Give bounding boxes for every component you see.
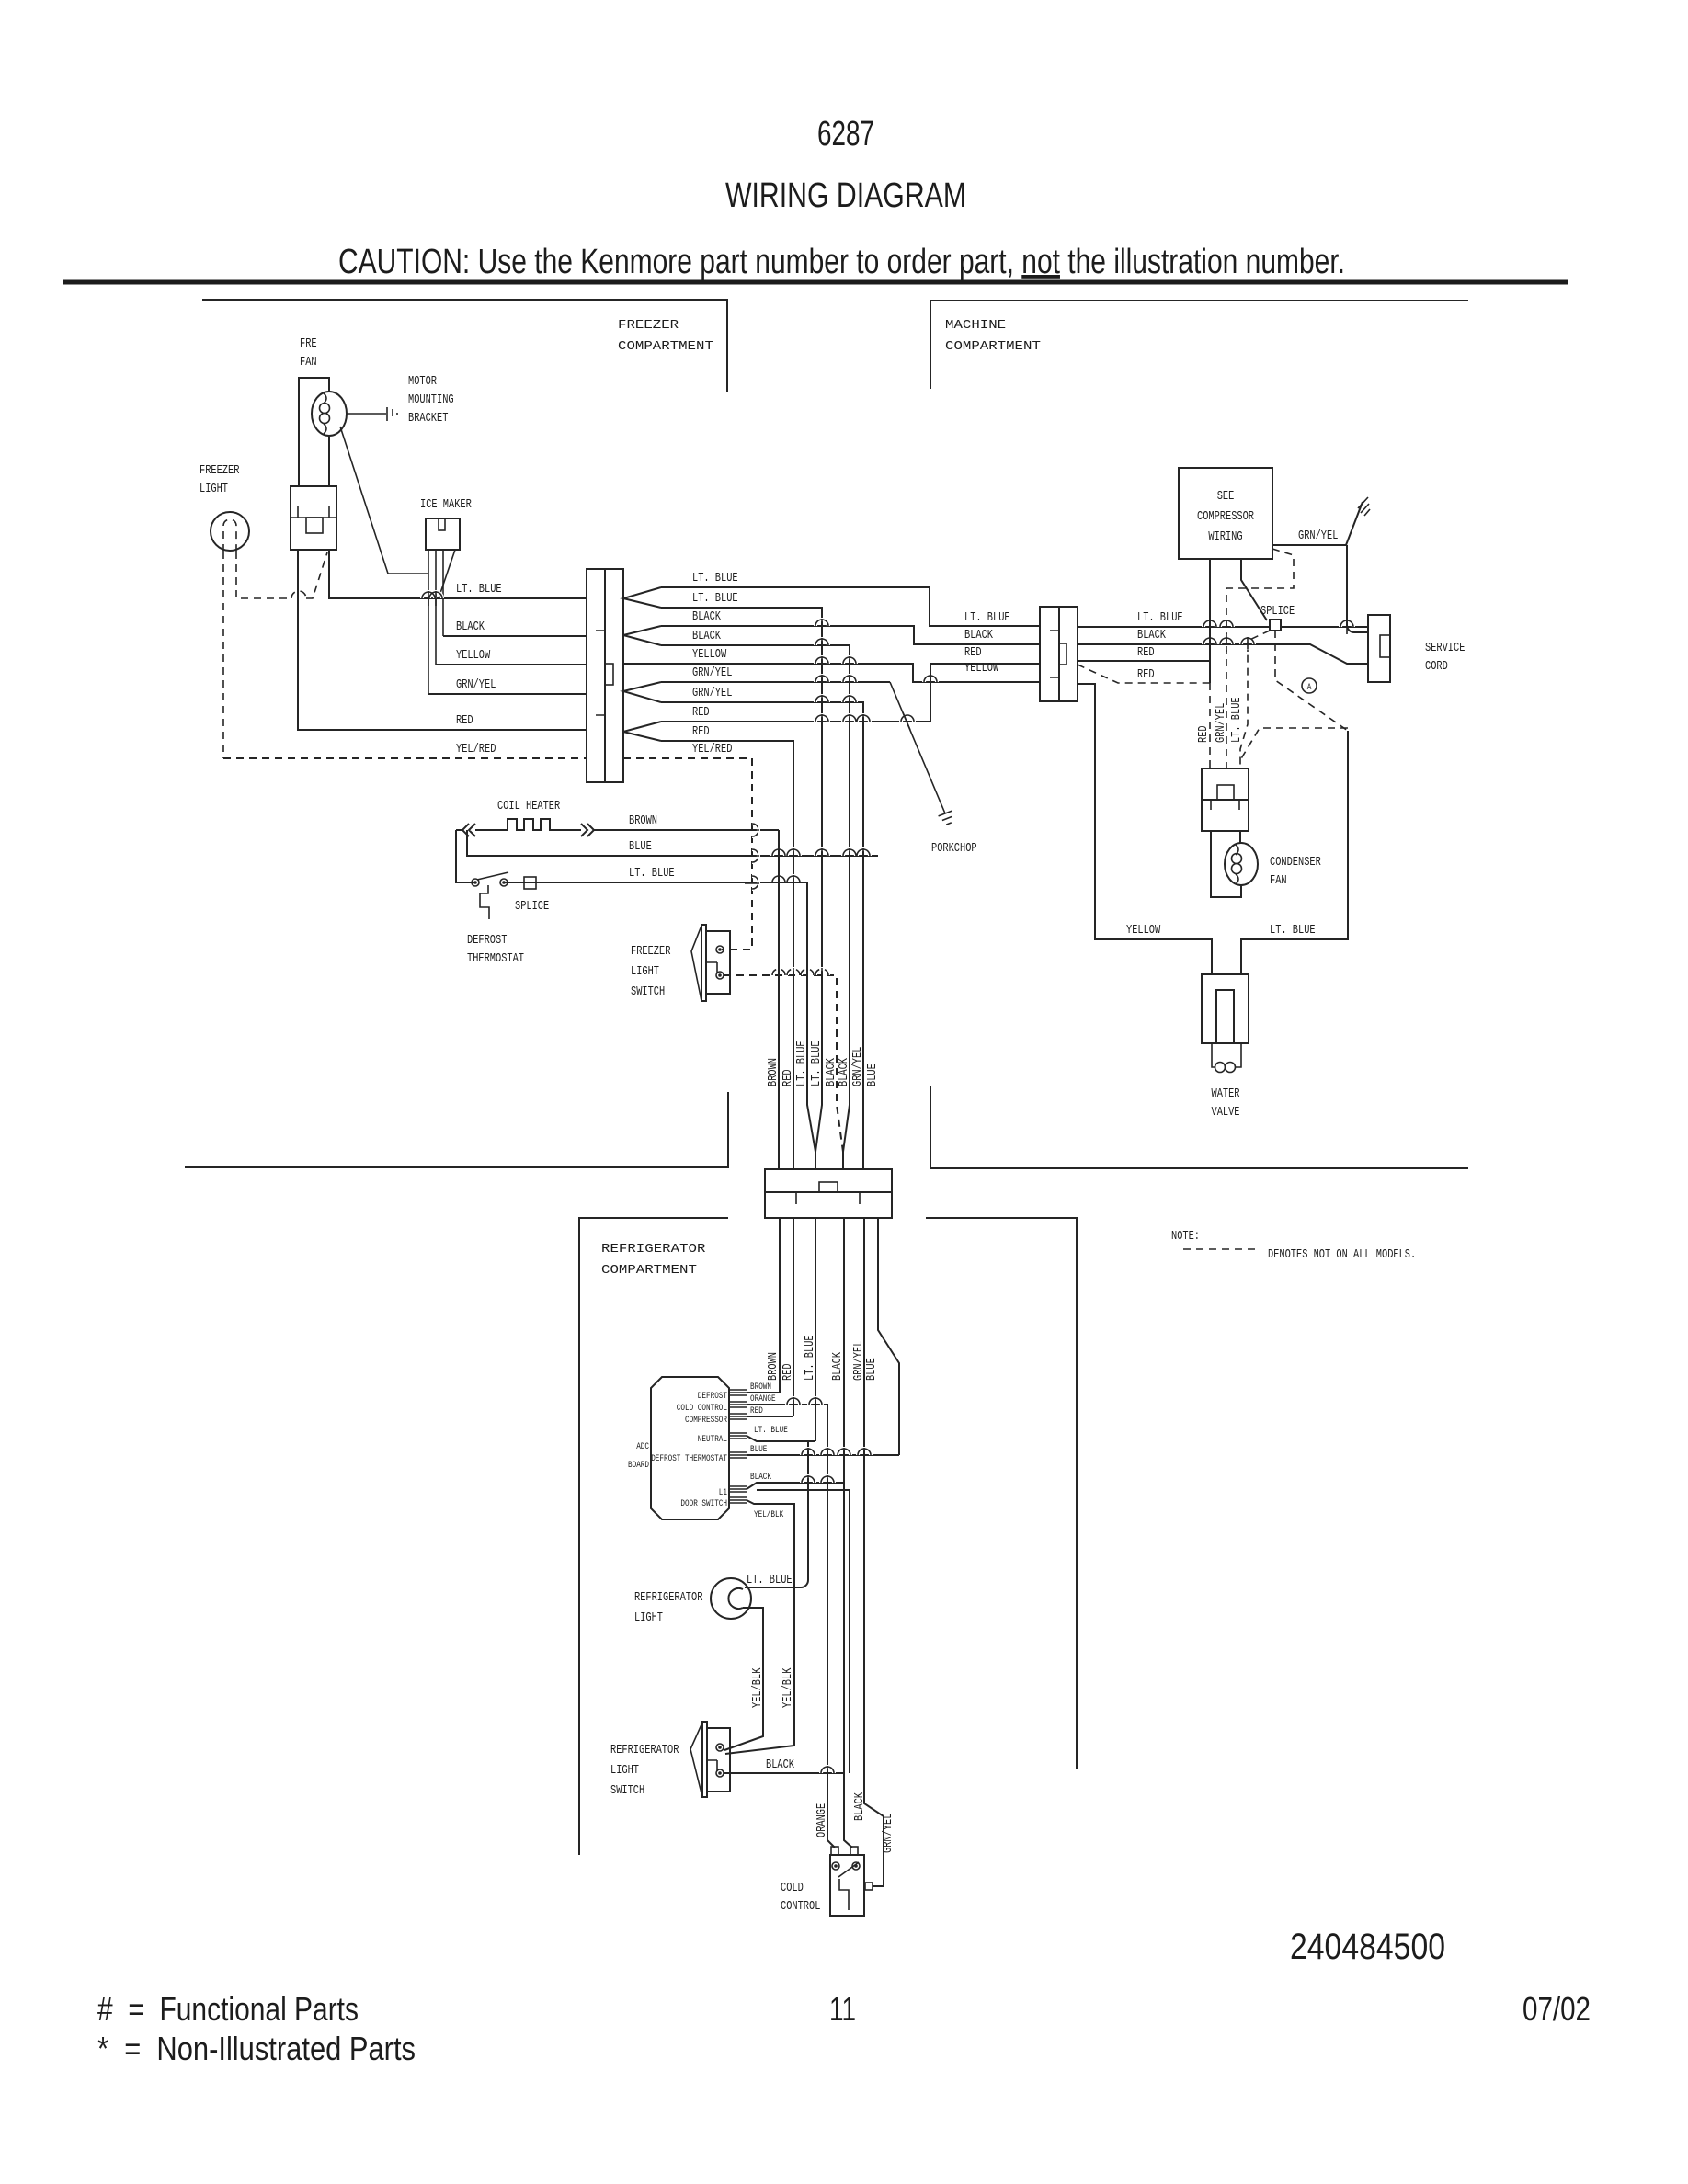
svg-text:ORANGE: ORANGE [750, 1394, 776, 1405]
svg-text:RED: RED [692, 724, 710, 739]
svg-text:LIGHT: LIGHT [631, 964, 659, 979]
pin cold control [729, 1402, 747, 1407]
wire lt blue vertical [815, 1218, 816, 1441]
svg-text:YEL/RED: YEL/RED [456, 742, 496, 756]
svg-text:SEE: SEE [1217, 489, 1235, 504]
svg-text:LT. BLUE: LT. BLUE [629, 866, 675, 881]
svg-text:YELLOW: YELLOW [1126, 923, 1161, 938]
freezer light switch terminals [716, 946, 724, 953]
chassis ground hatch [1358, 497, 1370, 516]
switch flag [690, 1723, 702, 1797]
svg-text:WIRING: WIRING [1208, 529, 1242, 544]
splice box [524, 877, 536, 889]
svg-text:ADC: ADC [636, 1442, 649, 1452]
wire yellow to machine [623, 664, 1040, 682]
svg-text:LT. BLUE: LT. BLUE [1229, 697, 1244, 743]
svg-text:BLACK: BLACK [964, 628, 993, 643]
pin L1 [729, 1486, 747, 1492]
dashed link A to loop [1275, 631, 1348, 731]
condenser fan motor [1225, 843, 1258, 885]
svg-text:COMPARTMENT: COMPARTMENT [601, 1263, 697, 1278]
wire yel/red dashed [623, 758, 752, 950]
compressor connector block [1202, 768, 1249, 831]
refrigerator light riser [745, 1441, 808, 1587]
wire lt blue dashed to compressor [1240, 631, 1270, 768]
cold control terminals [832, 1862, 839, 1870]
freezer light bulb [211, 512, 249, 551]
freezer light switch flag [691, 926, 701, 1001]
svg-text:BOARD: BOARD [628, 1461, 649, 1471]
svg-text:COMPRESSOR: COMPRESSOR [685, 1416, 727, 1426]
wire grn/yel vertical [864, 1218, 884, 1886]
svg-text:DENOTES NOT ON ALL MODELS.: DENOTES NOT ON ALL MODELS. [1268, 1247, 1416, 1262]
compressor pin to splice [1241, 559, 1267, 620]
flag pin red pair [623, 722, 661, 741]
grn/yel into connector [1347, 545, 1368, 632]
svg-text:GRN/YEL: GRN/YEL [692, 686, 732, 700]
porkchop ground lead [890, 682, 945, 813]
horizontal rule [63, 280, 1568, 285]
svg-text:FREEZER: FREEZER [631, 944, 671, 959]
cold control blade [838, 1862, 859, 1877]
svg-text:WATER: WATER [1212, 1086, 1240, 1101]
wire grn/yel row [428, 693, 587, 695]
svg-text:SPLICE: SPLICE [515, 899, 549, 914]
wire yel/red dashed row [223, 757, 587, 759]
coil heater element [456, 819, 779, 836]
svg-text:VALVE: VALVE [1212, 1105, 1240, 1120]
wire orange to adc [747, 1405, 835, 1848]
defrost thermostat sensor zigzag [480, 885, 489, 919]
svg-text:BLACK: BLACK [692, 609, 721, 624]
svg-text:GRN/YEL: GRN/YEL [850, 1047, 865, 1086]
svg-text:RED: RED [1196, 725, 1211, 743]
ice maker body [426, 518, 460, 550]
svg-text:GRN/YEL: GRN/YEL [881, 1814, 895, 1853]
svg-text:SERVICE: SERVICE [1425, 641, 1465, 655]
service cord connector [1368, 615, 1390, 682]
svg-text:BLACK: BLACK [766, 1757, 794, 1772]
svg-text:LIGHT: LIGHT [200, 482, 228, 496]
svg-text:COMPARTMENT: COMPARTMENT [945, 339, 1041, 354]
svg-text:FREEZER: FREEZER [618, 318, 679, 333]
flag pin black pair [623, 626, 661, 645]
svg-text:GRN/YEL: GRN/YEL [692, 665, 732, 680]
svg-text:BROWN: BROWN [766, 1352, 781, 1381]
svg-text:YELLOW: YELLOW [692, 647, 727, 662]
wire red lower riser [661, 741, 793, 1169]
svg-text:REFRIGERATOR: REFRIGERATOR [601, 1242, 706, 1257]
svg-text:GRN/YEL: GRN/YEL [456, 677, 496, 692]
svg-text:NOTE:: NOTE: [1171, 1229, 1200, 1244]
svg-text:DEFROST THERMOSTAT: DEFROST THERMOSTAT [651, 1454, 727, 1464]
svg-text:CORD: CORD [1425, 659, 1448, 674]
wire black dashed from switch [724, 975, 843, 1152]
svg-text:BROWN: BROWN [766, 1058, 781, 1086]
svg-text:BLACK: BLACK [830, 1352, 845, 1381]
wire yel/red dashed drop from bulb [222, 552, 224, 758]
svg-text:COIL HEATER: COIL HEATER [497, 799, 561, 813]
svg-text:YEL/RED: YEL/RED [692, 742, 732, 756]
svg-text:RED: RED [1137, 667, 1155, 682]
freezer compartment bracket top [202, 300, 727, 392]
wire grn/yel dashed vertical [1226, 549, 1294, 768]
wire black row [443, 635, 587, 637]
dashed jog to compressor lt blue [1240, 728, 1348, 760]
wire lt blue neutral [747, 1436, 815, 1441]
wire brown to adc [747, 1392, 780, 1393]
svg-text:LT. BLUE: LT. BLUE [809, 1041, 824, 1086]
svg-text:RED: RED [781, 1363, 795, 1381]
svg-text:LT. BLUE: LT. BLUE [692, 591, 738, 606]
svg-text:LT. BLUE: LT. BLUE [754, 1426, 788, 1436]
wire black L1 [747, 1483, 844, 1489]
refrigerator compartment box [579, 1218, 728, 1855]
svg-text:LT. BLUE: LT. BLUE [692, 571, 738, 586]
svg-text:CONDENSER: CONDENSER [1270, 855, 1321, 870]
wire yel/red dashed hops [752, 824, 758, 889]
svg-text:SPLICE: SPLICE [1260, 604, 1295, 619]
svg-text:BLUE: BLUE [750, 1445, 767, 1455]
freezer light filament (dashed) [223, 519, 236, 552]
wire red upper to machine [661, 664, 1040, 722]
wire red row [298, 550, 587, 730]
wire lt blue vertical from defrost row [807, 882, 815, 1152]
svg-text:YEL/BLK: YEL/BLK [781, 1667, 795, 1708]
wire black vertical [844, 1218, 852, 1848]
svg-text:NEUTRAL: NEUTRAL [698, 1435, 727, 1445]
svg-text:RED: RED [750, 1406, 763, 1416]
svg-text:LIGHT: LIGHT [634, 1610, 663, 1625]
svg-text:CONTROL: CONTROL [781, 1899, 820, 1914]
wire yel/blk door switch [725, 1500, 794, 1754]
wire grn/yel to chassis ground [1272, 502, 1363, 545]
svg-text:11: 11 [829, 1990, 856, 2028]
svg-text:COLD: COLD [781, 1881, 804, 1895]
wire red vertical [793, 1218, 794, 1416]
svg-text:SWITCH: SWITCH [631, 984, 665, 999]
switch plate [702, 1722, 707, 1797]
svg-text:BLUE: BLUE [864, 1358, 879, 1381]
svg-text:PORKCHOP: PORKCHOP [931, 841, 977, 856]
svg-text:RED: RED [781, 1069, 795, 1086]
wire grn/yel stub [873, 1885, 884, 1887]
wire yellow row [436, 664, 587, 665]
fan connector block [291, 486, 336, 550]
svg-text:GRN/YEL: GRN/YEL [1298, 529, 1338, 543]
wire blue vertical [878, 1218, 899, 1455]
svg-text:BLACK: BLACK [1137, 628, 1166, 643]
svg-text:LT. BLUE: LT. BLUE [747, 1573, 793, 1587]
svg-text:LT. BLUE: LT. BLUE [1270, 923, 1316, 938]
wire black from switch [724, 1772, 844, 1774]
svg-text:* = Non-Illustrated Parts: * = Non-Illustrated Parts [97, 2030, 416, 2067]
svg-text:BLUE: BLUE [629, 839, 652, 854]
connector body [587, 569, 605, 782]
svg-text:MOTOR: MOTOR [408, 374, 437, 389]
svg-text:DEFROST: DEFROST [467, 933, 507, 948]
wire red row [1078, 660, 1210, 662]
wire lt blue dashed drop from bulb [236, 552, 291, 598]
svg-text:YELLOW: YELLOW [964, 661, 999, 676]
svg-text:A: A [1307, 683, 1312, 693]
svg-text:MOUNTING: MOUNTING [408, 392, 454, 407]
svg-text:YEL/BLK: YEL/BLK [754, 1509, 783, 1520]
svg-text:FRE: FRE [300, 336, 317, 351]
svg-text:COLD CONTROL: COLD CONTROL [677, 1404, 727, 1414]
svg-text:THERMOSTAT: THERMOSTAT [467, 951, 524, 966]
svg-text:DOOR SWITCH: DOOR SWITCH [680, 1499, 727, 1509]
wire yellow loop [1078, 684, 1212, 974]
ice maker pin 1 grn/yel [428, 550, 429, 694]
fan motor frame [299, 378, 329, 486]
wire fan yellow diagonal [340, 427, 428, 574]
svg-text:SWITCH: SWITCH [610, 1783, 644, 1798]
svg-text:ICE MAKER: ICE MAKER [420, 497, 472, 512]
svg-text:BLACK: BLACK [456, 620, 485, 634]
pin defrost thermostat [729, 1452, 747, 1458]
svg-text:RED: RED [692, 705, 710, 720]
wire black row [1078, 644, 1368, 664]
cold control bellows [839, 1879, 849, 1910]
svg-text:LT. BLUE: LT. BLUE [803, 1335, 817, 1381]
machine compartment bracket top [930, 301, 1468, 389]
ADC board outline [651, 1377, 729, 1519]
wire black upper to machine [661, 626, 1040, 644]
svg-text:RED: RED [1137, 645, 1155, 660]
svg-text:07/02: 07/02 [1523, 1990, 1591, 2028]
refrigerator light bulb [711, 1578, 751, 1619]
svg-text:GRN/YEL: GRN/YEL [1214, 703, 1228, 743]
pin compressor [729, 1414, 747, 1419]
flag pin lt blue pair [623, 587, 661, 608]
svg-text:LT. BLUE: LT. BLUE [1137, 610, 1183, 625]
cold control ground stub [865, 1883, 873, 1890]
wire lt blue loop right [1241, 731, 1348, 974]
fan motor circle M1 [312, 392, 347, 436]
svg-text:MACHINE: MACHINE [945, 318, 1006, 333]
dashed hop over fan pin [291, 591, 306, 598]
svg-text:YEL/BLK: YEL/BLK [750, 1667, 765, 1708]
svg-text:CAUTION: Use the Kenmore part: CAUTION: Use the Kenmore part number to … [338, 243, 1345, 281]
svg-text:YELLOW: YELLOW [456, 648, 491, 663]
svg-text:LT. BLUE: LT. BLUE [964, 610, 1010, 625]
wire black lower riser [661, 645, 850, 1169]
svg-text:ORANGE: ORANGE [815, 1803, 829, 1837]
freezer compartment bottom border [185, 1092, 728, 1167]
fan motor winding [324, 393, 326, 434]
svg-text:DEFROST: DEFROST [698, 1392, 727, 1402]
water valve coil [1212, 1043, 1241, 1067]
porkchop hatch [939, 811, 952, 825]
ice maker pin 4 lt blue [439, 550, 455, 598]
svg-text:FREEZER: FREEZER [200, 463, 240, 478]
svg-text:REFRIGERATOR: REFRIGERATOR [610, 1743, 679, 1757]
flag pin grn/yel pair [623, 682, 661, 702]
pin door switch [729, 1497, 747, 1503]
compressor pin red vertical [1209, 559, 1211, 683]
svg-text:6287: 6287 [817, 115, 874, 154]
switch terminals [716, 1744, 724, 1751]
svg-text:REFRIGERATOR: REFRIGERATOR [634, 1590, 703, 1605]
circled A [1302, 678, 1317, 693]
svg-text:# = Functional Parts: # = Functional Parts [97, 1990, 359, 2028]
svg-text:COMPRESSOR: COMPRESSOR [1197, 509, 1254, 524]
wire lt. blue row [1078, 626, 1368, 628]
defrost thermostat contacts [472, 879, 479, 886]
svg-text:BRACKET: BRACKET [408, 411, 448, 426]
wire grn/yel lower riser [661, 702, 863, 1169]
svg-text:LT. BLUE: LT. BLUE [456, 582, 502, 597]
pin neutral [729, 1433, 747, 1439]
defrost thermostat blade [477, 872, 508, 880]
svg-text:240484500: 240484500 [1290, 1927, 1445, 1967]
svg-text:L1: L1 [719, 1488, 727, 1498]
ice maker pin 3 black [442, 550, 444, 636]
splice square [1270, 620, 1281, 631]
svg-text:BROWN: BROWN [629, 813, 657, 828]
wire red to adc [747, 1416, 793, 1417]
svg-text:BLUE: BLUE [865, 1064, 880, 1086]
svg-text:BLACK: BLACK [852, 1792, 867, 1821]
pin defrost [729, 1390, 747, 1395]
svg-text:BROWN: BROWN [750, 1382, 771, 1393]
wire lt. blue lower riser [661, 608, 822, 1169]
ice maker pin 2 yellow [435, 550, 437, 665]
wire brown vertical [778, 830, 780, 1169]
svg-text:RED: RED [456, 713, 473, 728]
wire blue defrost thermostat [747, 1454, 899, 1456]
machine compartment bottom border [930, 1086, 1468, 1168]
svg-text:BLACK: BLACK [750, 1473, 771, 1483]
condenser fan wiring [1211, 831, 1241, 897]
water valve body [1202, 974, 1249, 1043]
wire yel/blk from bulb [724, 1608, 763, 1750]
svg-text:COMPARTMENT: COMPARTMENT [618, 339, 713, 354]
svg-text:BLACK: BLACK [837, 1058, 851, 1086]
svg-text:WIRING DIAGRAM: WIRING DIAGRAM [725, 176, 966, 215]
cold control body [830, 1855, 864, 1916]
svg-text:FAN: FAN [1270, 873, 1287, 888]
svg-text:LIGHT: LIGHT [610, 1763, 639, 1778]
wire lt. blue row defrost thermostat [456, 830, 807, 882]
freezer light switch plate [701, 925, 706, 1001]
wire lt. blue upper to machine [661, 587, 1040, 626]
wire grn/yel upper to porkchop [661, 681, 890, 683]
svg-text:RED: RED [964, 645, 982, 660]
connector body [1040, 607, 1059, 701]
svg-text:BLACK: BLACK [692, 629, 721, 643]
wire red dashed branch [1078, 665, 1210, 683]
wire lt. blue row [329, 550, 587, 598]
motor mounting bracket symbol [347, 407, 397, 421]
wire blue row [467, 830, 878, 856]
svg-text:FAN: FAN [300, 355, 317, 370]
bulkhead connector block [765, 1169, 892, 1218]
wire brown vertical [779, 1218, 781, 1393]
